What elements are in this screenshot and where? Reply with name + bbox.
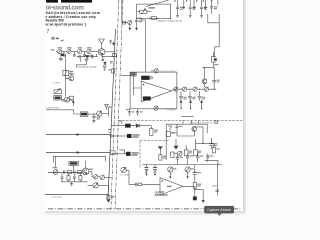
diode D lpf [86,55,89,58]
page right shadow [242,0,245,212]
diode D1 [104,62,107,64]
capacitor C1 [59,56,63,61]
wire modulator right [196,127,214,148]
capacitor C16 [136,109,139,116]
wire P11 down [93,114,95,116]
dashed section line lower [140,140,169,142]
arrow mark in [61,39,64,41]
wire speed row [48,172,82,174]
wire opamp out [183,186,203,199]
value label C13 [214,6,218,9]
resistor R14 [67,171,72,174]
ground R7 [201,100,203,109]
page bottom shadow [45,211,245,215]
label box HIGH OUTPUT [126,152,131,156]
ground R18 [107,199,109,202]
value label R20 [197,184,201,187]
fold line (vertical dash-dot left) [111,0,119,209]
stub wire C [205,0,207,9]
potentiometer P7 [174,87,183,91]
capacitor C6 [79,55,80,58]
value label P4 [87,47,91,48]
wire Q1 right [105,51,115,53]
wire L path [46,110,80,114]
label box P1 [61,54,64,56]
value label R13 [216,148,219,149]
capacitor C21 [74,170,75,174]
svg-text:AMPLIFIER: AMPLIFIER [155,194,168,197]
wire B to outputs [119,150,124,154]
stub M3 [197,121,199,125]
resistor bus C [112,69,115,73]
label box tap [125,124,131,128]
capacitor C27 electrolytic [196,154,200,163]
value label P1 [58,47,62,48]
capacitor C11 [189,0,192,15]
wire LFO right [88,113,97,115]
transistor Q2 [66,76,74,81]
ground R5 [180,100,182,109]
wire speed drops [56,156,86,170]
wire LPF drop [76,58,86,67]
value label C16 [140,111,143,112]
box chorus [130,72,177,109]
transistor Q3 [202,67,207,87]
wire Q6 right [89,172,93,177]
dashed section line vertical [139,141,141,168]
capacitor C29 [135,183,138,187]
ground arrow mid [158,146,162,154]
wire right rail down [212,164,217,196]
potentiometer P14 [100,175,111,180]
stub LPF up [95,54,97,57]
diode D2 [136,124,139,128]
capacitor C24b electrolytic [153,164,157,173]
capacitor C19 electrolytic [209,138,213,149]
resistor R11 [184,145,188,156]
capacitor C12 [200,0,203,15]
capacitor C3 gnd [73,52,76,57]
wire long bottom [45,194,108,196]
capacitor C5 [102,56,105,61]
resistor R5 [179,91,183,101]
antenna symbol [99,39,105,49]
capacitor C20 [63,170,64,174]
resistor R20 feedback [193,182,196,188]
label box LOW OUTPUT [127,134,132,138]
resistor R10 [167,131,171,136]
resistor R19 [138,183,142,186]
svg-text:VIBRATO OSCILLATOR: VIBRATO OSCILLATOR [157,20,182,23]
wire opamp to row [171,89,175,91]
capacitor C14 [212,67,216,89]
potentiometer P3 [77,50,86,54]
value label C14 [217,80,220,83]
value label R10 [171,132,175,133]
value label power [109,107,112,108]
ground LPF [103,66,106,70]
value label C30 [197,172,200,173]
node dot tap [133,125,134,126]
potentiometer VR1 [138,9,152,14]
value label R9 [163,156,167,159]
label box bus A [113,53,117,56]
potentiometer P6 [61,97,69,102]
junction ticks A [109,133,114,137]
value label C12 [204,7,208,10]
value label P12 [53,167,58,168]
arrow 9v [113,42,115,46]
node circle U1 [150,77,152,79]
value label C osc [139,21,143,22]
wire U bracket [208,14,219,23]
capacitor C15 [128,109,131,116]
ground C11 [189,15,192,17]
output jack J2 [212,52,217,67]
op-amp U4 [160,178,183,195]
capacitor C13 [210,0,213,14]
IC U1 label box [141,76,149,80]
wire control B [46,152,111,154]
ground C24b [154,174,156,176]
svg-text:VIBRATO MODULATOR: VIBRATO MODULATOR [189,121,213,124]
value label C26 [190,155,193,156]
label LOW OUTPUT [133,134,140,137]
value label P3 [78,47,82,48]
resistor R2 [149,17,159,20]
ground C12 [200,15,203,17]
resistor R12 [194,139,198,156]
potentiometer P18 [168,167,173,179]
node dots row [180,89,214,90]
resistor R mod [171,152,174,158]
capacitor C osc [135,18,138,30]
label box SPEED [69,161,78,165]
potentiometer P4 [87,50,98,54]
label HIGH OUTPUT [132,152,139,155]
value label R5 [183,97,186,100]
value label bus C [108,69,111,70]
capacitor C4 gnd [83,52,86,57]
resistor R9 [159,155,162,161]
pointer diagonal line [146,0,169,6]
stub wire A [183,0,185,9]
stub C23 [73,174,76,182]
value label C17 [97,117,101,120]
potentiometer P12 [53,170,58,175]
potentiometer P15 [88,183,99,188]
capacitor bus B [110,62,113,63]
stub M1 [182,121,184,125]
resistor R8 [150,126,153,136]
capacitor C26 electrolytic [186,154,190,165]
value label R3 [69,71,73,74]
resistor R4 [69,96,73,100]
ground R21 [202,200,204,202]
ground C24a [145,174,147,176]
wire top link [203,66,215,68]
stub C22 [61,174,64,182]
wire osc left [122,22,128,24]
wire chorus left [121,75,130,77]
value label R7 [202,97,205,100]
wire LPF row [77,56,98,58]
svg-text:LOW PASS FILTER: LOW PASS FILTER [76,66,97,69]
ground modulator [174,139,178,149]
resistor R3 [63,70,69,75]
corner mark [118,121,122,124]
switch SW1 [54,89,61,94]
box speed section [53,156,105,162]
value label C27 [200,155,203,156]
label box T1 [122,21,125,24]
stub R17 [79,173,82,181]
wire inside chorus [133,76,141,95]
label OUTPUT AMPLIFIER [155,191,168,197]
dashed section line upper [118,119,243,121]
potentiometer P10 [204,87,216,91]
value label P18 [173,168,176,169]
potentiometer chorus freq [151,69,158,73]
capacitor C2 gnd [63,52,66,57]
resistor R6 [188,91,192,101]
capacitor C in [51,37,58,40]
node dot out [194,189,195,190]
capacitor C24a electrolytic [145,164,149,173]
wire osc link [137,18,146,20]
sw marks A [108,129,111,132]
svg-text:xxx Fx-80: xxx Fx-80 [51,197,62,199]
power symbol bus [105,105,109,110]
capacitor C28 electrolytic [206,154,210,163]
potentiometer P1 [57,50,66,54]
value label J2 [214,64,218,65]
potentiometer P8 [182,87,193,91]
label box amp [54,96,62,100]
svg-text:VIBRATO: VIBRATO [167,108,177,111]
resistor R21 [193,196,197,200]
potentiometer P19 [185,167,190,179]
svg-text:Capture d'écran: Capture d'écran [207,208,231,212]
capacitor C7 [92,55,93,58]
sw marks modulator [215,121,218,123]
svg-text:or an sport de précision :): or an sport de précision :) [46,22,87,26]
resistor R13 [212,148,215,153]
value label C15 [126,109,135,113]
wire from box bottom [141,19,143,21]
node dots top [174,0,212,1]
value label R4 [62,100,67,101]
stub wire D [217,0,219,5]
ground C10 [176,15,179,17]
label box chorus corner [131,73,137,76]
value label R11 [189,151,192,154]
wire P15 to bus [99,184,109,186]
capacitor C18 [176,124,179,133]
wire into chorus top [144,20,146,73]
stub wire B [193,0,195,9]
potentiometer P mod [178,151,182,155]
fold line (vertical dash-dot right) [115,0,123,209]
transistor Q5 [192,127,197,136]
potentiometer P freq [128,21,132,30]
label box LFO [80,112,88,116]
value label D lpf [90,55,93,56]
value label J1 [51,49,55,50]
capacitor C25 electrolytic [176,155,180,165]
label U4 [167,186,171,188]
svg-text:NORM: NORM [53,82,60,84]
transistor Q4 symbol 7 [168,126,172,130]
border dash-dot bottom [48,208,242,210]
box vibrato modulator [166,124,207,160]
value label P19 [190,168,193,169]
svg-text:Q AMPLIFIER: Q AMPLIFIER [45,107,59,110]
transistor Q6 [82,168,89,175]
value label Q2 [70,74,75,75]
capacitor C30 electrolytic [193,172,197,182]
wire above box [182,116,194,118]
potentiometer P11 [97,111,109,116]
svg-text:7: 7 [47,29,50,35]
value label VR1 [149,7,156,9]
wire low output [112,135,127,137]
wire Q1 down [102,55,115,56]
value label C28 [210,155,213,156]
wire to output jack [215,23,220,57]
value label C11 [193,7,196,10]
wire high output [112,153,127,155]
input jack J1 [56,51,58,53]
capacitor C7b [85,60,88,65]
arrow up feedback [72,101,74,106]
stub M2 [190,121,192,125]
wire left vertical [65,54,67,97]
ground rail [70,182,73,186]
potentiometer P2 [67,50,77,54]
value label C18 [179,126,182,127]
svg-text:VOLUME: VOLUME [120,175,130,177]
capacitor C9v [110,40,112,44]
box vibrato oscillator [137,4,171,18]
wire modulator mid [171,133,194,136]
wire volume to opamp [126,171,160,185]
resistor R15 [77,171,82,174]
wire top left drop [121,0,123,23]
potentiometer P16 volume [121,167,126,172]
wire bus junction [108,107,110,117]
capacitor C10 [176,0,179,15]
potentiometer P13 [93,175,100,180]
value label P2 [67,47,71,48]
bus wire vertical center [108,29,116,200]
tooltip Capture d'ecran [204,206,234,216]
svg-text:CHORUS FREQ: CHORUS FREQ [160,71,176,73]
resistor R18 [107,186,110,199]
node dot left chain [65,78,66,79]
ground R6 [190,100,192,109]
value label C19 [214,143,217,146]
value label Q6 [89,169,93,170]
transistor Q1 [98,49,105,56]
wire control A [46,134,112,136]
wire top right rail [142,161,222,173]
capacitor C17 [92,116,95,120]
value label C25 [174,153,183,158]
node dots modulator [195,126,204,144]
potentiometer P9 [193,87,205,91]
value label R12 [198,151,201,154]
wire tap row [112,125,152,127]
stub R16 [67,173,70,181]
value label R18 [111,196,114,199]
junction box B [110,151,115,155]
resistor R7 [198,91,202,101]
wire bottom rail [61,181,88,183]
value label R8 [154,130,158,133]
op-amp U2 [141,81,171,102]
IC U3 label box [143,96,151,100]
capacitor C31 [216,190,220,191]
ground C17 [92,121,95,123]
wire Q3 top [203,66,205,68]
value label R6 [192,97,195,100]
node dot LFO [93,114,94,115]
potentiometer chorus depth [154,106,158,110]
value label C10 [180,7,184,10]
watermark header text block [46,0,101,26]
